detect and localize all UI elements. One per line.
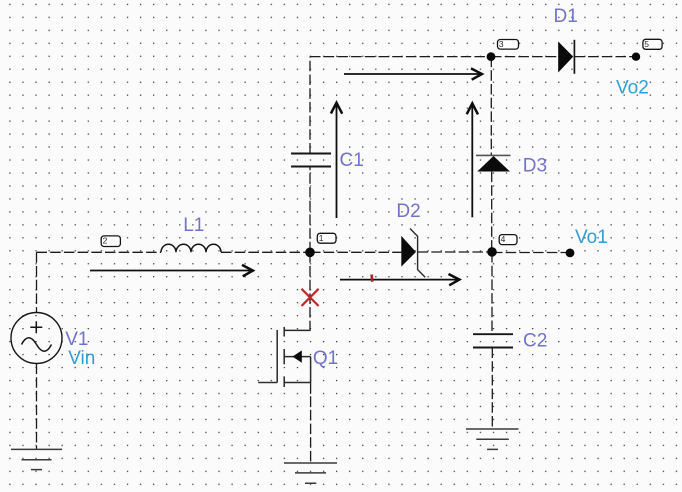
wire Q1 source down to ground xyxy=(310,383,312,464)
svg-text:3: 3 xyxy=(499,39,504,49)
wire D1 cathode to Vo2 terminal xyxy=(574,56,636,58)
voltage source V1 xyxy=(11,313,62,364)
capacitor C1 xyxy=(291,154,331,167)
inductor L1 xyxy=(161,244,221,252)
svg-text:Vin: Vin xyxy=(68,348,95,369)
node Vo2 terminal dot xyxy=(632,53,640,61)
svg-text:5: 5 xyxy=(644,39,649,49)
wire Q1 gate stub xyxy=(258,382,277,384)
diode D3 xyxy=(476,155,511,171)
wire V1 top lead xyxy=(36,252,38,312)
red cross open-circuit marker xyxy=(302,289,319,306)
svg-text:Vo2: Vo2 xyxy=(616,78,649,99)
ground below Q1 xyxy=(284,463,337,483)
svg-text:C1: C1 xyxy=(340,150,364,171)
wire C1 top plate up to top rail xyxy=(309,57,311,154)
wire main rail left of L1 xyxy=(37,251,162,253)
wire C2 bottom plate to ground xyxy=(491,348,493,430)
diode D1 xyxy=(558,40,574,74)
junction node B xyxy=(487,247,497,257)
svg-text:Q1: Q1 xyxy=(313,348,338,369)
svg-text:C2: C2 xyxy=(523,331,547,352)
current arrow C1 branch xyxy=(331,103,342,218)
current arrow through D2 xyxy=(340,274,459,285)
svg-text:1: 1 xyxy=(319,233,324,243)
capacitor C2 xyxy=(473,334,513,347)
wire D3 anode down to node B xyxy=(491,172,493,252)
wire node C down to D3 cathode xyxy=(490,57,492,156)
svg-text:D1: D1 xyxy=(554,6,578,27)
probe 4 xyxy=(499,234,517,245)
probe 1 xyxy=(317,233,336,243)
ground below C2 xyxy=(466,429,519,449)
svg-text:V1: V1 xyxy=(65,329,88,350)
probe 5 xyxy=(643,39,662,50)
wire top rail to node C xyxy=(310,56,491,58)
wire node C to D1 anode xyxy=(491,56,558,58)
ground below V1 xyxy=(11,449,62,469)
wire node A down to Q1 drain xyxy=(309,252,311,330)
wire V1 bottom lead to ground xyxy=(36,364,38,450)
junction node A xyxy=(305,248,315,258)
current arrow input rail xyxy=(90,265,253,276)
transistor Q1 body arrow xyxy=(293,350,302,362)
junction node C xyxy=(487,52,496,61)
wire node A up to C1 bottom plate xyxy=(309,167,311,253)
red tick marker on D2 arrow xyxy=(370,275,373,282)
current arrow D3 branch xyxy=(467,103,478,217)
svg-text:Vo1: Vo1 xyxy=(575,227,608,248)
svg-text:2: 2 xyxy=(103,235,108,245)
svg-text:D3: D3 xyxy=(523,156,547,177)
svg-text:4: 4 xyxy=(501,234,506,244)
svg-text:D2: D2 xyxy=(396,201,420,222)
wire L1 to node A xyxy=(221,251,310,253)
transistor Q1 xyxy=(277,327,310,387)
svg-text:L1: L1 xyxy=(183,215,204,236)
current arrow top rail xyxy=(344,68,482,79)
probe 2 xyxy=(101,235,120,246)
wire D2 cathode to node B xyxy=(418,251,492,253)
node Vo1 terminal dot xyxy=(566,249,575,258)
wire node A to D2 anode xyxy=(310,251,401,253)
wire node B down to C2 top plate xyxy=(491,252,493,334)
probe 3 xyxy=(498,39,519,49)
wire node B to Vo1 terminal xyxy=(492,252,570,254)
diode D2 xyxy=(401,229,425,278)
